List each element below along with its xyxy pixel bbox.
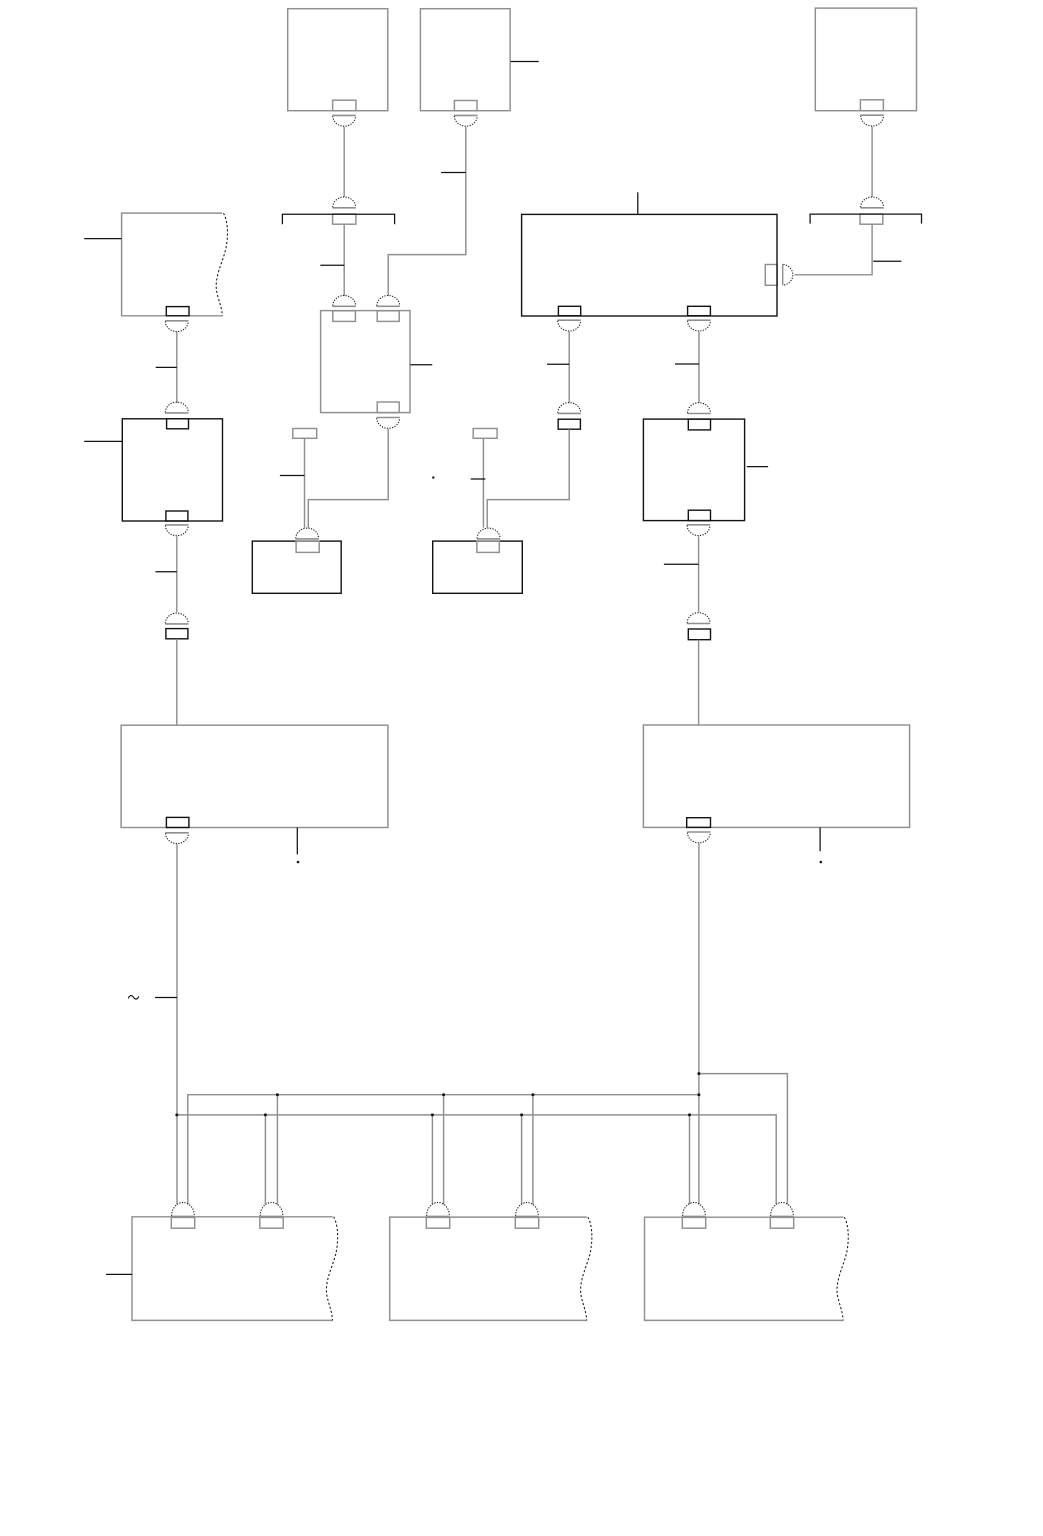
wire inline left to big mid left box [176,639,178,725]
wire bracket2 to side dome [795,224,873,275]
big mid left box connector dome [165,833,188,844]
drop wire pair5 lower [689,1115,691,1205]
drop wire pair3 lower [431,1115,433,1205]
box C connector dome [860,115,883,126]
box L2 bottom connector dome [165,525,188,536]
box L2 top pin rectangle [167,419,189,429]
leader tick right of box R2 [747,466,768,468]
relay bottom connector dome [377,418,400,429]
wire torn box down [176,331,178,403]
long wire right column down [698,843,700,1204]
wire R2 down [698,536,700,612]
wire from box A down [343,127,345,197]
junction dot upper bus right [697,1093,700,1096]
big mid right box [643,725,909,827]
wire L2 down [176,537,178,613]
connector dome above bracket 1 [333,197,356,208]
wire relay to small box L [308,429,388,528]
small box R pin rectangle [477,541,499,552]
connector dome above bracket 2 [860,197,883,208]
leader tick right of box B [511,61,539,63]
leader line into torn box [84,238,121,240]
wire bracket1 to relay dome [343,224,345,296]
inline connector rectangle (mid) [558,419,580,429]
connector dome above box L2 [165,402,188,413]
drop wire pair4 upper [532,1095,534,1205]
box R2 bottom pin rectangle [688,510,710,520]
standalone pin rectangle above small box L [293,429,317,439]
connector dome above box R2 [687,403,710,414]
bracket 2 connector rectangle [860,214,883,224]
bottom connector dome 5 [682,1203,705,1217]
torn edge of bottom box left [326,1217,337,1321]
wire inline mid to small box R [487,429,569,527]
standalone pin rectangle above small box R [473,429,497,439]
inline connector rectangle (right) [688,629,710,640]
branch wire to far right connector [699,1074,788,1205]
drop wire pair2 lower [264,1115,266,1205]
torn edge of bottom box right [837,1217,848,1320]
torn box top-left (partial component) [122,213,223,316]
bottom connector dome 1 [171,1203,194,1217]
inline connector dome (left) [165,613,188,624]
box C pin rectangle [860,100,883,111]
small box L connector dome [296,528,319,539]
leader tick at R2 wire [664,563,699,565]
big mid right box connector dome [687,832,710,843]
leader tick at wire to R2 [675,363,699,365]
leader tick at long left wire [155,997,177,999]
bottom connector rectangle 5 [682,1217,705,1228]
junction dot upper bus a [276,1093,279,1096]
drop wire pair3 upper [443,1095,445,1205]
relay box (center) [321,311,410,413]
box L2 bottom pin rectangle [166,511,188,521]
leader line below big mid right box [819,827,821,851]
leader tick at mid wire [547,363,569,365]
comma mark below leader [820,861,823,864]
big mid left box pin rectangle [166,817,189,827]
bottom connector dome 6 [770,1203,793,1217]
leader tick right of wire C [873,260,901,262]
bottom box left (torn) [132,1217,333,1321]
leader tick at left wire [156,366,177,368]
period dot below leader [297,861,300,864]
junction dot upper bus c [531,1093,534,1096]
box L2 (left black component) [122,419,222,521]
bottom connector dome 3 [426,1203,449,1217]
inline connector rectangle (left) [166,629,188,639]
long wire left column down [176,844,178,1204]
leader line below big mid left box [296,828,298,855]
wire big box pin2 down [698,332,700,403]
wire inline right to big mid right box [698,640,700,725]
leader tick at small box L wire [280,475,305,477]
bottom connector dome 2 [260,1203,283,1217]
relay bottom pin rectangle [377,402,399,413]
bracket 1 (black shield bracket) [282,214,394,224]
leader line into bottom box left [106,1273,132,1275]
leader tick right of relay [410,364,432,366]
wire big box pin1 down [568,332,570,403]
bracket 1 connector rectangle [333,214,356,224]
bottom connector rectangle 6 [770,1217,793,1228]
small box R (black) [433,541,523,593]
relay top connector dome 2 [377,296,400,307]
bottom connector dome 4 [515,1203,538,1217]
box R2 (right relay) [643,419,744,520]
junction dot lower bus left [175,1113,178,1116]
drop wire pair2 upper [276,1095,278,1205]
leader tick at box B wire [441,172,466,174]
wire from box C down [871,127,873,197]
box B pin rectangle [454,101,477,111]
box A connector dome [333,115,356,126]
upper bus wire [188,1095,699,1205]
big mid right box pin rectangle [687,818,711,828]
bottom connector rectangle 1 [171,1217,194,1228]
junction dot lower bus b [431,1113,434,1116]
leader tick at L2 wire [155,571,176,573]
junction dot lower bus c [520,1113,523,1116]
big box pin rectangle 2 [688,306,711,315]
leader tick above big top box [637,192,639,214]
inline connector dome (mid) [558,403,581,414]
relay top pin rectangle 1 [333,311,356,322]
small dot mark [432,476,434,478]
leader tick at wire [320,264,344,266]
box B (top second component) [420,9,510,111]
bottom box right (torn) [645,1217,844,1320]
bottom connector rectangle 3 [426,1217,449,1228]
big mid left box [121,725,388,827]
torn box connector dome [165,321,188,332]
box A pin rectangle [333,100,356,111]
junction dot upper bus b [442,1093,445,1096]
relay top connector dome 1 [333,296,356,307]
box A (top left component) [288,9,388,111]
box R2 bottom connector dome [687,525,710,536]
torn box pin rectangle [166,307,189,316]
junction dot branch [697,1072,700,1075]
wire standalone rect R down [482,438,484,527]
big box connector dome 2 [687,320,710,331]
drop wire pair4 lower [521,1115,523,1205]
box C (top right component) [815,8,916,111]
junction dot lower bus a [264,1113,267,1116]
wire standalone rect L down [304,438,306,528]
relay top pin rectangle 2 [377,311,399,322]
lower bus wire [177,1115,776,1205]
leader tick at small box R wire [471,478,486,480]
torn edge of top-left box [216,213,227,316]
bottom connector rectangle 4 [515,1217,538,1228]
small box R connector dome [477,528,500,539]
inline connector dome (right) [687,613,710,624]
torn edge of bottom box middle [581,1217,592,1320]
bottom box middle (torn) [390,1217,587,1320]
big top box (junction block) [522,214,777,316]
small box L pin rectangle [296,541,319,552]
junction dot lower bus d [688,1113,691,1116]
wire from box B to relay [388,127,466,296]
big box pin rectangle 1 [558,306,580,315]
box B connector dome [454,115,477,126]
tilde mark [128,996,138,1000]
big box connector dome 1 [558,320,581,331]
small box L (black) [252,541,341,593]
box R2 top pin rectangle [688,419,710,430]
leader line into box L2 [84,440,122,442]
bottom connector rectangle 2 [260,1217,283,1228]
sideways pin rectangle inside big box [765,265,777,286]
bracket 2 (black shield bracket) [810,214,921,224]
sideways connector dome at big box right [783,264,793,285]
